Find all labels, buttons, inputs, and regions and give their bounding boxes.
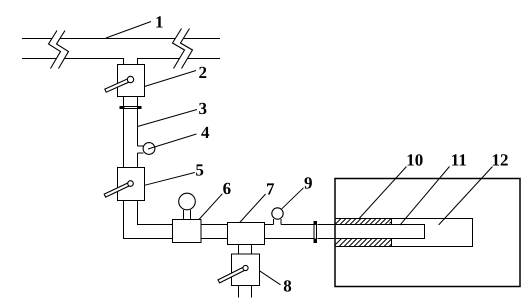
valve V2 body xyxy=(118,65,145,97)
gauge U6 circle xyxy=(179,193,196,210)
pipe break symbol left xyxy=(49,31,69,69)
packing seal 10 bottom band xyxy=(391,239,393,247)
gauge U6 stem xyxy=(184,210,191,220)
svg-text:3: 3 xyxy=(199,99,208,118)
leader line 7 xyxy=(240,194,266,223)
leader line 4 xyxy=(148,134,197,149)
wire: tee T7 down neck xyxy=(239,245,252,255)
svg-text:12: 12 xyxy=(492,151,509,170)
wire: stubs below valve 2 xyxy=(124,97,138,107)
wire: stubs below valve 8 xyxy=(239,286,252,298)
valve V5 body xyxy=(118,168,145,201)
flange joint F1 xyxy=(125,107,138,109)
valve V2 handle xyxy=(105,78,131,92)
flange joint F2 lines xyxy=(314,225,317,239)
leader line 10 xyxy=(359,167,407,220)
gauge G4 circle xyxy=(143,143,155,155)
block 12 outer body xyxy=(335,179,520,287)
gauge unit U6 body xyxy=(173,220,202,243)
leader line 11 xyxy=(400,167,450,226)
wire: tee branch stubs from main pipe xyxy=(124,59,138,66)
svg-text:8: 8 xyxy=(283,277,292,296)
svg-text:1: 1 xyxy=(155,13,164,32)
leader line 8 xyxy=(260,271,281,285)
flange joint F2 blocks xyxy=(314,221,318,225)
leader line 6 xyxy=(199,194,222,220)
wire: horizontal pipe top line xyxy=(138,224,336,226)
leader line 5 xyxy=(145,173,195,186)
pipe break symbol right xyxy=(173,29,193,69)
pipe 11 inside block xyxy=(335,225,425,239)
wire: vertical pipe 3 xyxy=(124,109,138,168)
svg-text:10: 10 xyxy=(406,151,423,170)
valve V5 stem circle xyxy=(128,181,134,187)
valve V8 body xyxy=(232,254,260,286)
leader line 3 xyxy=(138,110,198,127)
packing seal 10 top band xyxy=(391,219,393,225)
leader line 9 xyxy=(282,188,304,209)
tee T7 body xyxy=(228,223,265,245)
gauge G9 stem xyxy=(274,219,282,225)
wire: pipe below valve 5, elbow xyxy=(124,201,138,240)
leader line 2 xyxy=(145,71,197,87)
wire: gauge 4 connection stubs xyxy=(138,146,144,153)
svg-text:9: 9 xyxy=(304,174,313,193)
svg-text:4: 4 xyxy=(201,123,210,142)
svg-text:6: 6 xyxy=(223,179,232,198)
bore slot in block 12 xyxy=(335,219,473,247)
valve V8 stem circle xyxy=(243,265,248,270)
svg-text:5: 5 xyxy=(195,161,204,180)
wire: main pipe top line xyxy=(22,38,220,40)
wire: horizontal pipe bottom line xyxy=(123,238,335,240)
valve V8 handle xyxy=(218,267,246,283)
svg-text:2: 2 xyxy=(199,63,208,82)
leader line 12 xyxy=(439,167,493,225)
svg-text:7: 7 xyxy=(266,180,275,199)
valve V2 stem circle xyxy=(127,76,133,82)
hatch pattern lines packing 10 xyxy=(335,219,392,247)
svg-text:11: 11 xyxy=(451,151,467,170)
gauge G9 circle xyxy=(272,208,283,219)
wire: main pipe bottom line xyxy=(22,58,220,60)
valve V5 handle xyxy=(104,182,131,197)
leader line 1 xyxy=(106,22,151,39)
